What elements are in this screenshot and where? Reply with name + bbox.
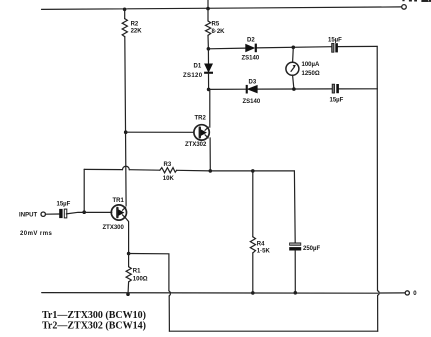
- capacitor C1 15uF (input): [57, 202, 71, 218]
- diode D3 ZS140: [243, 80, 261, 106]
- svg-text:INPUT: INPUT: [19, 212, 38, 218]
- svg-text:ZS140: ZS140: [243, 99, 261, 105]
- junction dot meter top: [292, 46, 296, 50]
- svg-text:20mV rms: 20mV rms: [20, 231, 52, 237]
- wire bottom loop: [169, 330, 377, 332]
- resistor R2 22K: [122, 9, 142, 36]
- junction dot meter bottom: [292, 87, 296, 91]
- resistor R3 10K (horizontal) with hop over left vertical: [84, 162, 210, 182]
- svg-text:D2: D2: [247, 38, 255, 44]
- wire D3 branch: [209, 88, 378, 91]
- svg-text:R2: R2: [131, 21, 139, 27]
- wire D2 branch: [208, 46, 377, 48]
- svg-text:TR2: TR2: [195, 115, 207, 121]
- junction dot top rail / R2: [123, 8, 127, 12]
- svg-text:TR1: TR1: [113, 198, 125, 204]
- wire input to C1: [46, 213, 60, 215]
- junction dot emitter node: [127, 252, 131, 256]
- junction dot R1 bottom: [126, 292, 130, 296]
- svg-text:100Ω: 100Ω: [133, 277, 148, 283]
- wire TR1 emitter down: [126, 218, 129, 253]
- wire right vertical (caps to bottom loop): [377, 46, 379, 331]
- junction dot R4 top: [251, 169, 255, 173]
- wire left vertical (R2 to TR1 collector): [125, 37, 126, 206]
- svg-text:250µF: 250µF: [303, 246, 320, 252]
- capacitor C4 250uF (electrolytic): [289, 171, 320, 293]
- wire to 0V terminal: [379, 292, 405, 294]
- meter M1 100uA 1250 ohm: [286, 47, 320, 89]
- transistor TR1 ZTX300: [103, 198, 127, 231]
- svg-text:15µF: 15µF: [57, 202, 71, 208]
- capacitor C2 15uF (top): [328, 38, 342, 53]
- terminal +9V (top right, text cut off): [402, 0, 431, 9]
- svg-text:1250Ω: 1250Ω: [302, 71, 320, 77]
- junction dot TR1 base: [82, 210, 86, 214]
- svg-text:Tr2—ZTX302 (BCW14): Tr2—ZTX302 (BCW14): [42, 321, 146, 332]
- label INPUT: [19, 212, 38, 218]
- svg-text:15µF: 15µF: [328, 38, 342, 44]
- svg-text:D1: D1: [194, 64, 202, 70]
- wire feedback down to TR1 base: [83, 169, 85, 212]
- terminal 0V: [405, 291, 417, 297]
- svg-text:R1: R1: [133, 268, 141, 274]
- wire stub above rail at R5: [207, 0, 209, 9]
- wire bottom 0V rail: [42, 292, 378, 295]
- label 20mV rms: [20, 231, 52, 237]
- diode D1 ZS120 (vertical): [183, 49, 213, 90]
- svg-text:22K: 22K: [131, 29, 143, 35]
- junction dot R4 bottom: [251, 291, 255, 295]
- svg-text:ZS120: ZS120: [183, 73, 203, 79]
- wire top supply rail: [42, 7, 402, 9]
- svg-text:R5: R5: [212, 22, 220, 28]
- diode D2 ZS140: [242, 38, 260, 62]
- resistor R5 8.2K: [206, 9, 226, 49]
- svg-text:0: 0: [413, 291, 417, 297]
- junction dot TR2 emitter / R3: [209, 169, 213, 173]
- svg-text:R4: R4: [257, 242, 265, 248]
- transistor TR2 ZTX302: [185, 89, 210, 170]
- svg-text:ZS140: ZS140: [242, 56, 260, 62]
- svg-text:R3: R3: [164, 162, 172, 168]
- label transistor equivalents: [42, 310, 146, 332]
- resistor R1 100 ohm: [126, 254, 148, 295]
- svg-text:15µF: 15µF: [330, 98, 344, 104]
- svg-text:D3: D3: [249, 80, 257, 86]
- svg-text:100µA: 100µA: [302, 62, 320, 68]
- svg-text:1·5K: 1·5K: [257, 249, 271, 255]
- junction dot TR2 base: [124, 130, 128, 134]
- junction dot D1 bottom node: [207, 88, 211, 92]
- svg-text:ZTX302: ZTX302: [185, 142, 207, 148]
- junction dot D1 top node: [207, 47, 211, 51]
- terminal input: [41, 212, 45, 216]
- wire C1 to TR1 base: [66, 212, 112, 214]
- svg-text:ZTX300: ZTX300: [103, 225, 125, 231]
- svg-text:10K: 10K: [163, 176, 175, 182]
- junction dot C4 bottom: [294, 291, 298, 295]
- capacitor C3 15uF (bottom): [330, 84, 344, 104]
- svg-text:Tr1—ZTX300 (BCW10): Tr1—ZTX300 (BCW10): [42, 310, 146, 321]
- svg-text:8·2K: 8·2K: [212, 29, 226, 35]
- resistor R4 1.5K: [250, 171, 270, 293]
- wire emitter branch to loop: [129, 254, 171, 332]
- junction dot top rail / R5: [206, 7, 210, 11]
- wire TR2 base: [126, 131, 194, 133]
- wire R3 node to R4 and cap corner: [210, 170, 294, 172]
